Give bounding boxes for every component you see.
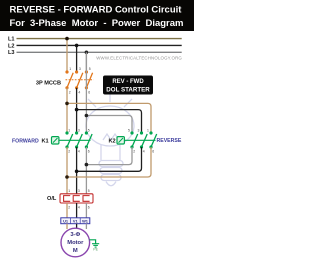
svg-text:3P MCCB: 3P MCCB [36,80,61,86]
wire K2 out tan join [67,147,151,177]
svg-text:4: 4 [78,206,80,210]
svg-text:PE: PE [93,248,98,252]
watermark light bulb logo [86,93,134,186]
MCCB pole 1 [65,70,73,89]
svg-text:3: 3 [78,189,80,193]
svg-text:2: 2 [68,150,70,154]
wire K2 out black join [77,147,142,171]
K2 pole middle [140,131,147,148]
svg-text:2: 2 [69,91,71,95]
svg-text:REVERSE: REVERSE [157,138,182,144]
svg-text:1: 1 [69,67,71,71]
bus L2 wire [17,44,182,46]
svg-text:3: 3 [78,129,80,133]
svg-text:U1: U1 [63,219,69,224]
svg-text:W1: W1 [82,219,89,224]
junction on L2 bus [75,44,79,48]
svg-text:K2: K2 [109,138,116,144]
O/L element 2 [73,196,80,202]
svg-text:4: 4 [143,150,145,154]
wire MCCB out L1 down to K1 [66,88,68,133]
O/L element 1 [64,196,71,202]
motor terminal box U1 V1 W1 [61,218,90,224]
junction on L3 bus [85,51,89,55]
svg-text:1: 1 [147,129,149,133]
junction L3 branch [85,114,89,118]
svg-text:FORWARD: FORWARD [12,138,39,144]
svg-text:5: 5 [88,129,90,133]
svg-text:WWW.ELECTRICALTECHNOLOGY.ORG: WWW.ELECTRICALTECHNOLOGY.ORG [96,56,182,61]
K1 pole 1 [65,131,72,148]
K2 pole right [149,131,156,148]
svg-text:6: 6 [152,150,154,154]
wire box to motor W1 [85,224,87,229]
wire K2 out gray join [86,147,132,165]
wire MCCB out L3 down to K1 [85,52,87,133]
K1 pole 2 [75,131,82,148]
wire K1 out L2 down to O/L [76,147,78,194]
O/L body [60,194,93,203]
REV-FWD DOL STARTER badge [103,76,153,95]
wire L3 branch to K2 left pole [86,116,132,134]
wire O/L out L3 to terminal box [85,203,87,218]
wire O/L out L1 to terminal box [66,203,68,218]
svg-text:3: 3 [79,67,81,71]
wire L3 drop to MCCB [85,52,87,72]
svg-text:6: 6 [88,206,90,210]
wire K1 out L3 down to O/L [85,147,87,194]
MCCB pole 2 [75,70,83,89]
title header [0,0,194,31]
svg-text:2: 2 [133,150,135,154]
earth PE wire [89,240,95,244]
svg-text:5: 5 [88,189,90,193]
svg-text:5: 5 [128,129,130,133]
svg-text:L3: L3 [8,50,15,56]
svg-text:DOL STARTER: DOL STARTER [106,86,150,93]
K1 coil box [52,137,59,144]
wire K1 out L1 down to O/L [66,147,68,194]
svg-text:1: 1 [68,129,70,133]
K2 mechanical link [124,139,155,141]
svg-text:3: 3 [138,129,140,133]
svg-text:6: 6 [88,150,90,154]
wire L2 drop to MCCB [76,45,78,72]
svg-text:6: 6 [88,91,90,95]
svg-text:4: 4 [78,150,80,154]
svg-text:V1: V1 [73,219,79,224]
O/L element 3 [83,196,90,202]
junction gray join [85,163,89,167]
contactor K2 [117,129,157,154]
svg-text:1: 1 [68,189,70,193]
junction black join [75,170,79,174]
wire MCCB out L2 down to K1 [76,88,78,133]
svg-text:O/L: O/L [47,196,57,202]
earth PE symbol [92,244,99,247]
wire L1 drop to MCCB [66,39,68,72]
contactor K1 [52,129,93,154]
svg-text:REVERSE - FORWARD Control Circ: REVERSE - FORWARD Control Circuit [10,4,183,15]
svg-text:For 3-Phase Motor - Power Diag: For 3-Phase Motor - Power Diagram [9,18,183,29]
wire L2 branch to K2 middle pole [77,110,142,133]
junction on L1 bus [65,37,69,41]
svg-text:Motor: Motor [67,240,84,246]
svg-text:5: 5 [89,67,91,71]
K2 coil box [117,137,124,144]
svg-text:K1: K1 [42,138,49,144]
MCCB breaker Q1 [65,67,93,94]
svg-text:3-Φ: 3-Φ [70,232,80,238]
svg-text:L2: L2 [8,43,15,49]
junction L1 branch [65,102,69,106]
K1 mechanical link [59,139,91,141]
svg-text:2: 2 [68,206,70,210]
overload relay O/L [60,189,93,210]
wire box to motor U1 [66,224,68,229]
junction tan join [65,175,69,179]
svg-text:L1: L1 [8,36,15,42]
MCCB pole 3 [85,70,93,89]
motor M [61,228,90,257]
junction L2 branch [75,108,79,112]
MCCB mechanical link (dashed) [66,79,94,81]
svg-text:REV - FWD: REV - FWD [112,79,144,85]
wire box to motor V1 [76,224,78,229]
wire O/L out L2 to terminal box [76,203,78,218]
K2 pole left [130,131,137,148]
svg-text:M: M [73,248,78,254]
bus L3 wire [17,51,182,53]
svg-text:4: 4 [78,91,80,95]
bus L1 wire [17,38,182,40]
K1 pole 3 [85,131,92,148]
wire L1 branch to K2 right pole [67,103,151,133]
